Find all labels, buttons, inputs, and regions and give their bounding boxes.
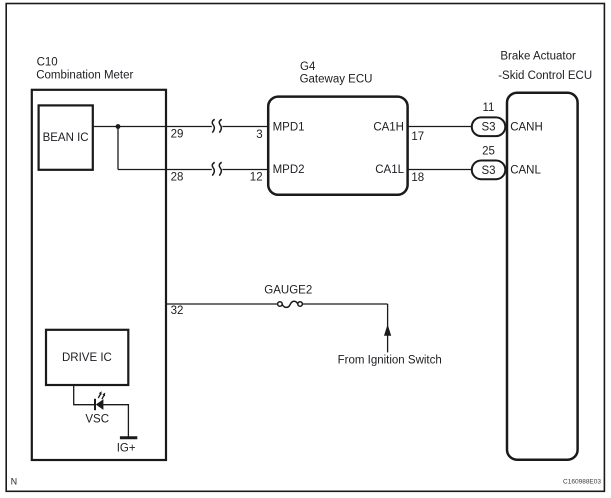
connector C10 Combination Meter box — [32, 56, 166, 460]
svg-text:3: 3 — [256, 129, 262, 141]
IC U1 BEAN IC — [39, 105, 93, 169]
wire break squiggle row1 left — [212, 119, 214, 132]
svg-text:12: 12 — [250, 172, 263, 184]
wire branch to MPD2 segment A — [118, 169, 212, 171]
wire corner down to ignition — [387, 304, 389, 352]
wire squiggle to MPD1 segment B — [222, 126, 268, 128]
wire S3 to CANL — [505, 169, 507, 171]
wire BEAN IC to MPD1 segment A — [93, 126, 212, 128]
wire LED to ground — [103, 405, 128, 437]
wire DRIVE IC to LED — [74, 385, 95, 405]
svg-text:29: 29 — [171, 129, 184, 141]
svg-text:Combination Meter: Combination Meter — [36, 70, 133, 82]
svg-text:BEAN IC: BEAN IC — [43, 132, 89, 144]
connector S3 CANL oval — [472, 161, 506, 180]
IC U2 DRIVE IC — [46, 330, 128, 385]
svg-text:CA1H: CA1H — [373, 121, 404, 133]
wire break squiggle row1 right — [219, 119, 221, 132]
ECU G4 Gateway ECU — [268, 61, 407, 195]
wire junction branch vertical — [117, 127, 119, 170]
wire CA1H to S3 — [408, 126, 472, 128]
svg-text:CANH: CANH — [510, 121, 543, 133]
svg-text:GAUGE2: GAUGE2 — [264, 285, 312, 297]
svg-text:Brake Actuator: Brake Actuator — [500, 50, 576, 62]
svg-text:C10: C10 — [37, 56, 58, 68]
svg-text:IG+: IG+ — [117, 443, 136, 455]
node junction dot — [116, 124, 121, 129]
wire break squiggle row2 right — [219, 162, 221, 175]
svg-text:-Skid Control ECU: -Skid Control ECU — [498, 70, 592, 82]
svg-text:28: 28 — [171, 171, 184, 183]
svg-text:11: 11 — [483, 102, 495, 114]
svg-text:17: 17 — [411, 131, 424, 143]
ECU Brake Actuator Skid Control ECU box — [498, 50, 592, 459]
svg-text:G4: G4 — [300, 61, 316, 73]
wire break squiggle row2 left — [212, 162, 214, 175]
arrow from ignition switch — [384, 324, 391, 336]
wire CA1L to S3 — [408, 169, 472, 171]
svg-text:CANL: CANL — [510, 164, 541, 176]
svg-text:MPD1: MPD1 — [273, 121, 305, 133]
fuse GAUGE2 — [264, 285, 312, 308]
svg-text:S3: S3 — [481, 165, 495, 177]
wire pin32 to fuse — [166, 303, 278, 305]
wire fuse to corner — [302, 303, 387, 305]
LED D1 VSC — [85, 391, 109, 425]
power IG+ bar — [117, 438, 138, 455]
connector S3 CANH oval — [472, 117, 506, 136]
svg-text:N: N — [11, 476, 17, 486]
svg-text:32: 32 — [171, 305, 184, 317]
svg-text:CA1L: CA1L — [375, 164, 404, 176]
wire S3 to CANH — [505, 126, 507, 128]
svg-text:DRIVE IC: DRIVE IC — [62, 352, 112, 364]
wire squiggle to MPD2 segment B — [222, 169, 268, 171]
svg-text:S3: S3 — [481, 122, 495, 134]
svg-text:25: 25 — [482, 146, 495, 158]
svg-text:MPD2: MPD2 — [273, 164, 305, 176]
svg-text:18: 18 — [411, 172, 424, 184]
svg-text:C160988E03: C160988E03 — [563, 479, 601, 486]
svg-text:From Ignition Switch: From Ignition Switch — [338, 355, 442, 367]
svg-text:Gateway ECU: Gateway ECU — [300, 73, 373, 85]
svg-text:VSC: VSC — [85, 413, 109, 425]
